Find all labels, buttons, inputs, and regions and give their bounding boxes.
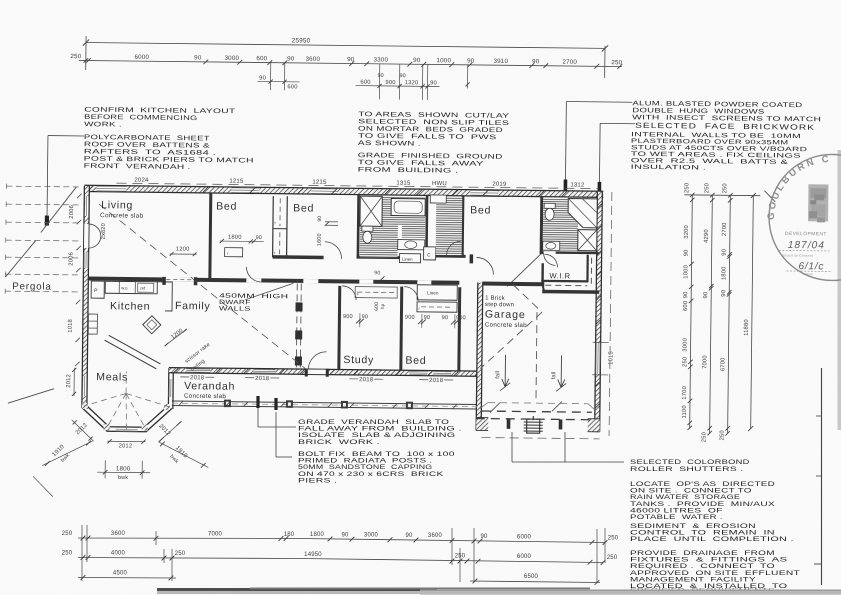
right chains top connector (684, 194, 760, 197)
pergola rafter dashed lines (6, 185, 82, 188)
bath block bottom wall (357, 256, 402, 260)
eaves dashed line garage bottom (482, 438, 600, 439)
garage front opening posts (476, 417, 488, 430)
ensuite bottom wall (540, 251, 599, 254)
bottom chain row3 right 6500 (470, 581, 600, 583)
kitchen diagonal bench (104, 340, 156, 369)
right dim chains verticals (690, 195, 693, 428)
WIR bottom wall (541, 280, 588, 283)
ensuite toilet (544, 203, 555, 208)
stamp logo smudge (808, 184, 828, 221)
left wall door opening 2x820 (84, 224, 89, 248)
meals octagon bay wall bottom (107, 426, 147, 428)
garage east exterior wall (595, 192, 603, 432)
door arc corridor living (246, 267, 261, 282)
ensuite corner shower (568, 198, 597, 227)
garage door dashed line (482, 411, 592, 412)
step diagonal hall (507, 254, 540, 287)
scan artifact right edge smudge (838, 150, 841, 430)
study bed wall (399, 287, 403, 371)
top dimension chain second row (79, 60, 622, 66)
bed1 closet box (225, 248, 243, 257)
top dimension chain overall 25950 (86, 43, 605, 49)
door arc bath2 (447, 241, 461, 255)
kitchen pantry P (91, 281, 104, 298)
WIR robe dashes (545, 284, 587, 286)
garage roof dashed diagonals (480, 312, 542, 370)
family dwarf wall (295, 283, 298, 369)
bottom chains extension verticals (81, 525, 83, 581)
bed4 linen closets top (417, 285, 457, 300)
leader grade verandah (258, 426, 296, 428)
left wall windows (84, 196, 89, 216)
closet C (424, 247, 436, 260)
WIR left wall (541, 263, 544, 283)
dim 1800 90 bed1 (220, 240, 264, 242)
right chain col2 ticks and labels (710, 193, 715, 198)
hall door jamb (470, 254, 474, 263)
pergola diagonal braces (41, 187, 77, 233)
bottom chain row2 (78, 558, 603, 563)
kitchen benches top (105, 281, 157, 294)
bed1 robe strip (272, 196, 275, 257)
exterior wall top (84, 185, 603, 197)
central wall bath (425, 195, 428, 259)
garage west wall (476, 282, 483, 430)
ensuite vanity (543, 241, 560, 250)
door arc study (342, 286, 356, 300)
south wall windows (186, 368, 210, 372)
verandah deck edge (172, 401, 477, 404)
HWU box (430, 195, 446, 203)
door arc hall to garage (476, 257, 493, 274)
door arc WIR (544, 254, 557, 267)
octagon ceiling dashed rays (84, 393, 126, 406)
right chain col3 ticks and labels (728, 193, 733, 198)
bathroom2 tile hatch (436, 197, 463, 255)
bath2 bottom wall (430, 254, 466, 257)
corridor wall openings (163, 277, 196, 281)
south wall door family (307, 369, 326, 374)
south wall ticks (174, 368, 179, 373)
kitchen corner sink diamond (143, 316, 161, 334)
bathroom tile hatch main (360, 196, 425, 225)
eaves dashed line right (609, 192, 612, 436)
top chain sub-row ticks and verticals (269, 63, 271, 90)
top wall windows (96, 186, 126, 192)
roller shutter leaders (511, 432, 513, 462)
toilet main (362, 226, 373, 231)
bed4 right wall (457, 287, 461, 371)
kitchen return bench (157, 282, 172, 311)
ensuite xbox (578, 230, 597, 251)
dim 1800 bwk meals (104, 460, 106, 478)
garage north wall left segment (482, 282, 544, 287)
garage north wall right segment (542, 290, 599, 294)
far right vertical line (821, 368, 823, 585)
interior wall living-bed1 (208, 192, 212, 278)
bottom chain row1 (78, 538, 605, 543)
bath2 right wall (461, 195, 464, 257)
WIR right wall (586, 255, 589, 282)
corridor south wall study row (297, 279, 459, 285)
verandah posts (224, 400, 231, 408)
living ceiling dashed diagonal (97, 204, 307, 368)
corridor wall kitchen-living long (88, 277, 297, 283)
double door arcs living (89, 224, 101, 236)
right chain col4 ticks and label (751, 193, 756, 198)
garage east wall ticks (597, 203, 603, 209)
exterior south wall family study bed (169, 368, 483, 377)
bed2 bottom wall (273, 255, 324, 259)
scan artifact bottom gray band (157, 588, 437, 592)
garage fall arrow 2 (560, 355, 562, 387)
leader alum windows (566, 100, 632, 103)
council stamp (765, 153, 841, 281)
bottom chain row3 left 4500 (78, 577, 176, 580)
shower main bath (360, 196, 382, 226)
right chain col1 ticks and labels (690, 193, 695, 198)
meals octagon bay wall SW diagonal (82, 407, 107, 430)
meals octagon bay wall SE diagonal (147, 408, 172, 431)
leader polycarbonate to pergola (48, 135, 84, 137)
door arc bed2 (325, 242, 342, 259)
octagon corner hatch patches (82, 403, 88, 409)
linen closet (400, 254, 421, 263)
ensuite left wall (540, 196, 544, 254)
bath tub (391, 198, 425, 215)
small diagonal mark lower left (8, 388, 54, 404)
garage slab dashed recess (490, 403, 500, 413)
door arc bed4 (404, 287, 418, 301)
left kitchen pantry boxes (88, 314, 97, 334)
garage fall arrow 1 (504, 355, 506, 387)
meals octagon bay east wall (167, 368, 169, 409)
vanity main bath (398, 240, 425, 250)
leader bolt fix (276, 456, 292, 458)
ensuite tile hatch (543, 198, 579, 250)
hatch ticks verandah wall (179, 401, 184, 406)
study left wall (337, 286, 341, 370)
exterior wall left (82, 186, 90, 408)
leader face brickwork (600, 122, 635, 124)
study robe dashed (355, 287, 397, 298)
top wall tick marks (88, 186, 94, 192)
bath block left wall (357, 194, 360, 258)
right wall 1015 window dim (593, 341, 609, 343)
